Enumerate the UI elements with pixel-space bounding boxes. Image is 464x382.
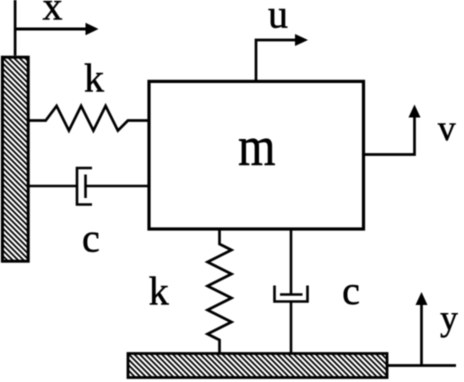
svg-text:v: v (438, 108, 456, 148)
svg-text:c: c (342, 268, 360, 313)
svg-text:k: k (84, 56, 104, 101)
svg-text:m: m (238, 116, 275, 178)
svg-text:u: u (268, 0, 288, 36)
svg-text:k: k (149, 268, 169, 313)
svg-text:c: c (82, 216, 100, 261)
svg-text:x: x (43, 0, 63, 29)
svg-text:y: y (440, 298, 458, 338)
